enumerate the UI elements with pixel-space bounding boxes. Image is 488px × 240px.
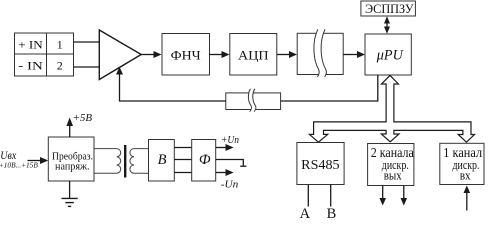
arrow АЦП to isolation barrier 1	[277, 54, 291, 56]
rectifier box В	[149, 140, 175, 182]
-Un output arrow	[216, 172, 227, 174]
+Un output arrow	[216, 147, 227, 149]
input terminal block X1 (+IN/-IN)	[15, 33, 74, 76]
arrow amplifier to ФНЧ	[141, 54, 155, 56]
wire RS485 line A	[307, 185, 309, 207]
svg-text:В: В	[158, 152, 167, 168]
common output wire with tick	[216, 160, 244, 167]
+5V supply arrow	[69, 124, 71, 137]
voltage converter box (Преобраз. напряж.)	[48, 137, 94, 181]
svg-text:вых: вых	[384, 169, 403, 183]
RS485 interface box	[297, 143, 344, 185]
wire RS485 line B	[330, 185, 332, 207]
svg-text:+Un: +Un	[221, 134, 239, 146]
svg-text:напряж.: напряж.	[55, 162, 90, 173]
arrow barrier 1 to μPU	[343, 54, 358, 56]
ground symbol	[62, 198, 78, 206]
svg-text:Uвх: Uвх	[0, 148, 17, 162]
filter box Ф	[192, 140, 216, 182]
isolation barrier 2 (box with break)	[226, 93, 281, 110]
svg-text:1: 1	[57, 37, 63, 51]
bidirectional arrow μPU-ЭСППЗУ	[386, 19, 388, 31]
wires В to Ф (3)	[174, 148, 191, 173]
transformer secondary winding	[130, 149, 149, 174]
arrow ФНЧ to АЦП	[210, 54, 224, 56]
discrete input arrow	[466, 192, 468, 211]
svg-text:+5В: +5В	[73, 112, 93, 124]
svg-text:Ф: Ф	[199, 152, 211, 168]
low-pass filter box ФНЧ	[162, 34, 210, 76]
svg-text:АЦП: АЦП	[238, 48, 269, 63]
ADC box АЦП	[230, 34, 277, 76]
ground wire	[69, 181, 71, 198]
wire -IN to amplifier	[74, 66, 100, 68]
discrete input box (1 канал дискр. вх)	[440, 143, 484, 184]
discrete output arrow 2	[403, 186, 405, 200]
microprocessor box μPU	[365, 34, 411, 75]
svg-text:В: В	[327, 206, 337, 218]
transformer core	[124, 145, 126, 178]
discrete output box (2 канала дискр. вых)	[368, 144, 414, 186]
svg-text:RS485: RS485	[301, 158, 339, 173]
svg-text:- IN: - IN	[18, 58, 43, 72]
feedback wire μPU to barrier 2	[281, 75, 378, 101]
transformer T1 primary winding	[94, 149, 121, 174]
feedback wire barrier 2 to amplifier with arrowhead	[120, 73, 226, 101]
svg-text:вх: вх	[460, 169, 472, 183]
arrow Uвх to converter	[28, 160, 42, 162]
svg-text:2: 2	[57, 58, 63, 72]
system bus (hollow arrows μPU to RS485 / discrete out / discrete in)	[310, 75, 475, 142]
svg-text:ЭСППЗУ: ЭСППЗУ	[365, 1, 414, 16]
svg-text:+ IN: + IN	[18, 37, 43, 51]
discrete output arrow 1	[382, 186, 384, 200]
svg-text:А: А	[300, 206, 311, 218]
svg-text:ФНЧ: ФНЧ	[171, 48, 202, 63]
svg-text:μPU: μPU	[376, 48, 404, 64]
amplifier A1 (triangle)	[99, 30, 141, 80]
EEPROM box ЭСППЗУ	[361, 1, 416, 16]
svg-text:-Un: -Un	[221, 179, 239, 191]
isolation barrier 1 (box with break)	[297, 33, 343, 74]
svg-text:+10В...+15В: +10В...+15В	[0, 162, 39, 170]
wire +IN to amplifier	[74, 41, 100, 43]
